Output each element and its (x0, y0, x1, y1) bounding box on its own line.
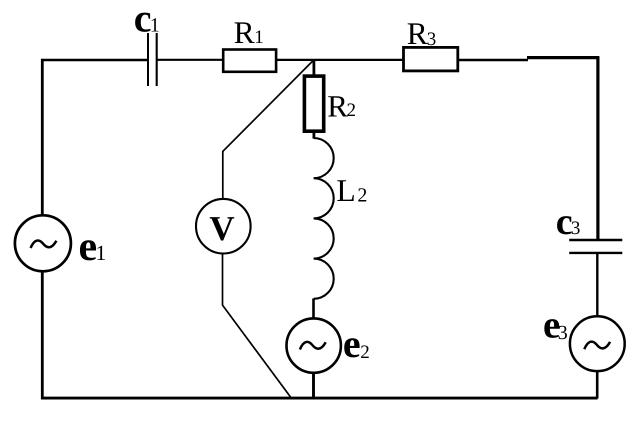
svg-text:1: 1 (150, 15, 160, 37)
svg-text:3: 3 (571, 218, 581, 239)
svg-text:2: 2 (347, 100, 357, 121)
svg-text:R: R (407, 16, 428, 51)
svg-text:3: 3 (558, 322, 568, 344)
svg-text:R: R (234, 15, 255, 50)
svg-text:e: e (79, 224, 98, 270)
svg-text:e: e (343, 321, 361, 366)
svg-text:2: 2 (360, 342, 370, 363)
svg-text:1: 1 (254, 27, 264, 48)
svg-text:1: 1 (96, 241, 107, 265)
svg-text:c: c (134, 0, 152, 40)
svg-text:L: L (336, 173, 355, 208)
svg-text:2: 2 (357, 185, 367, 207)
svg-text:V: V (209, 209, 234, 248)
svg-text:3: 3 (427, 29, 437, 50)
svg-text:R: R (327, 89, 348, 124)
